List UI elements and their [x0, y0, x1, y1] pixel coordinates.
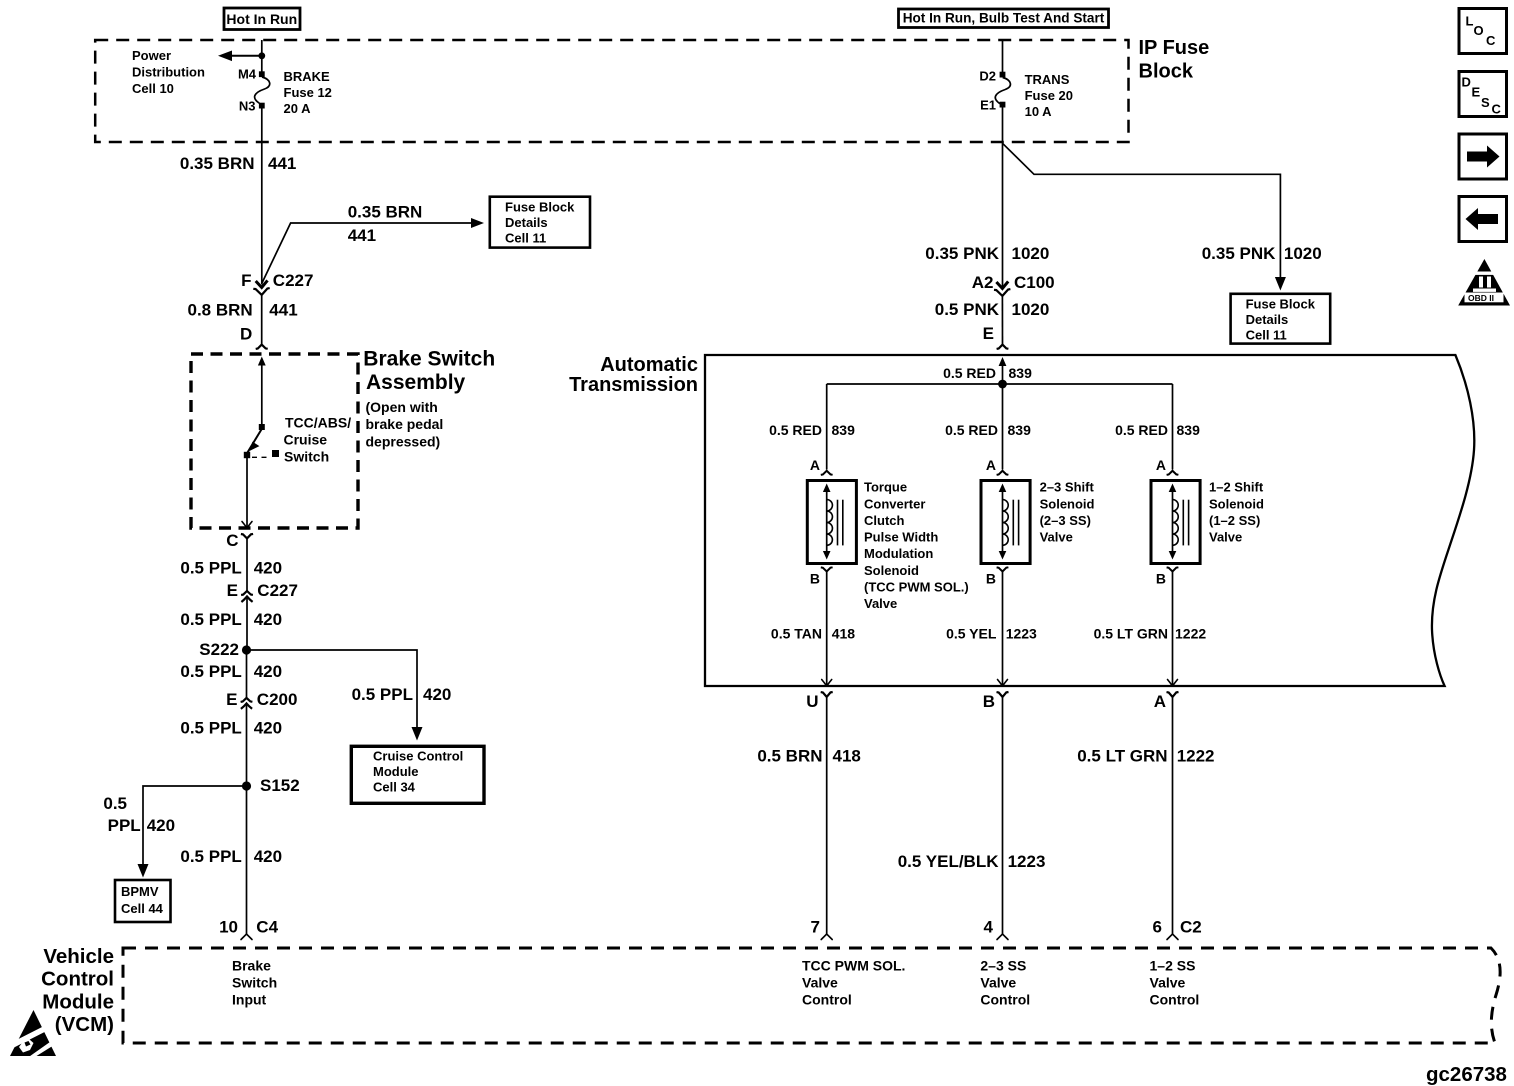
svg-text:0.5 PPL: 0.5 PPL — [180, 847, 241, 866]
connector C200 E (chevron + arrow up) — [241, 698, 253, 709]
wire E into transmission (arrow up) — [999, 357, 1007, 384]
svg-text:0.35 PNK: 0.35 PNK — [925, 244, 999, 263]
svg-text:0.8 BRN: 0.8 BRN — [188, 301, 253, 320]
svg-text:Hot In Run, Bulb Test And Star: Hot In Run, Bulb Test And Start — [903, 11, 1105, 26]
terminal B chevron — [997, 692, 1009, 697]
wire C to connector C227-E — [246, 538, 248, 591]
svg-text:C227: C227 — [257, 581, 298, 600]
svg-text:0.5 RED: 0.5 RED — [1115, 422, 1168, 438]
wire S222 to C200-E — [246, 650, 248, 698]
wire branch S222 to cruise control module — [247, 650, 423, 741]
terminal 6 C2 wire-end — [1167, 934, 1178, 940]
svg-text:brake pedal: brake pedal — [366, 416, 444, 432]
wire drop to 2-3 solenoid — [1002, 384, 1004, 470]
svg-text:420: 420 — [423, 685, 451, 704]
svg-text:0.35 BRN: 0.35 BRN — [180, 154, 255, 173]
svg-text:Module: Module — [373, 764, 419, 779]
fuse BRAKE Fuse 12 element — [255, 77, 270, 103]
svg-text:0.5 LT GRN: 0.5 LT GRN — [1077, 747, 1167, 766]
switch blade with arrow — [247, 430, 261, 453]
svg-text:C227: C227 — [273, 271, 314, 290]
svg-text:S152: S152 — [260, 776, 300, 795]
svg-text:Control: Control — [802, 991, 852, 1007]
svg-text:0.5 PNK: 0.5 PNK — [935, 300, 1000, 319]
ESD warning symbol — [10, 1010, 57, 1059]
svg-text:Cell 11: Cell 11 — [1246, 328, 1287, 343]
svg-text:A2: A2 — [972, 273, 994, 292]
svg-text:2–3 Shift: 2–3 Shift — [1040, 480, 1095, 495]
svg-text:C100: C100 — [1014, 273, 1055, 292]
svg-text:6: 6 — [1153, 918, 1162, 937]
svg-text:BPMV: BPMV — [121, 884, 159, 899]
svg-text:839: 839 — [832, 422, 856, 438]
svg-text:1020: 1020 — [1012, 300, 1050, 319]
svg-text:Valve: Valve — [1150, 975, 1186, 991]
svg-text:E1: E1 — [980, 98, 996, 113]
svg-text:C200: C200 — [257, 690, 298, 709]
box Fuse Block Details Cell 11 (right) — [1231, 294, 1331, 344]
solenoid 1-2 shift box — [1151, 481, 1200, 564]
svg-text:0.5 RED: 0.5 RED — [943, 365, 996, 381]
svg-text:0.5: 0.5 — [103, 794, 127, 813]
svg-text:418: 418 — [832, 626, 856, 642]
svg-text:B: B — [810, 571, 820, 587]
wire A to VCM pin 6 — [1172, 698, 1174, 935]
svg-text:L: L — [1466, 14, 1474, 29]
svg-text:Assembly: Assembly — [366, 371, 466, 394]
icon DESC box — [1459, 72, 1507, 117]
svg-text:Switch: Switch — [284, 449, 329, 465]
terminal A chevron — [1167, 692, 1179, 697]
svg-text:C: C — [1486, 33, 1496, 48]
svg-text:1–2 Shift: 1–2 Shift — [1209, 480, 1264, 495]
svg-text:441: 441 — [348, 226, 376, 245]
svg-text:Details: Details — [505, 215, 548, 230]
svg-text:1–2 SS: 1–2 SS — [1150, 958, 1196, 974]
fuse TRANS Fuse 20 element — [995, 78, 1010, 104]
wire from IP box top to fuse D2 (right) — [1002, 40, 1004, 72]
connector C100 A2 (arrow + chevron) — [994, 281, 1010, 296]
svg-text:E: E — [226, 690, 237, 709]
svg-text:Valve: Valve — [864, 596, 897, 611]
terminal 4 wire-end — [997, 934, 1008, 940]
svg-text:Switch: Switch — [232, 975, 277, 991]
connector C227 F (arrow + chevron) — [253, 280, 269, 295]
wire branch S152 to BPMV — [138, 786, 247, 878]
svg-text:Fuse 12: Fuse 12 — [284, 85, 332, 100]
pin A chevron (1-2) — [1167, 471, 1179, 475]
svg-text:A: A — [810, 457, 820, 473]
svg-text:0.5 LT GRN: 0.5 LT GRN — [1094, 626, 1168, 642]
svg-text:N3: N3 — [239, 99, 256, 114]
wire S152 to VCM pin 10 — [246, 786, 248, 934]
svg-text:B: B — [986, 571, 996, 587]
svg-text:TRANS: TRANS — [1025, 72, 1070, 87]
wire drop to TCC solenoid — [826, 384, 828, 470]
svg-text:10 A: 10 A — [1025, 104, 1053, 119]
svg-text:420: 420 — [254, 662, 282, 681]
pin A chevron (TCC) — [821, 471, 833, 475]
svg-text:C2: C2 — [1180, 918, 1202, 937]
svg-text:PPL: PPL — [108, 816, 141, 835]
svg-text:(TCC PWM SOL.): (TCC PWM SOL.) — [864, 580, 969, 595]
svg-text:S: S — [1481, 95, 1490, 110]
svg-text:Fuse Block: Fuse Block — [505, 200, 575, 215]
svg-text:IP Fuse: IP Fuse — [1139, 37, 1210, 59]
svg-text:0.5 YEL/BLK: 0.5 YEL/BLK — [898, 852, 999, 871]
svg-text:1222: 1222 — [1177, 747, 1215, 766]
svg-text:0.5 PPL: 0.5 PPL — [180, 719, 241, 738]
svg-text:839: 839 — [1008, 422, 1032, 438]
svg-text:TCC/ABS/: TCC/ABS/ — [285, 415, 351, 431]
svg-text:Details: Details — [1246, 312, 1289, 327]
pin B connector (TCC) — [821, 567, 833, 577]
wire into brake switch (arrow up) — [258, 357, 266, 425]
svg-text:839: 839 — [1009, 365, 1033, 381]
wire from IP box top to fuse M4 — [261, 40, 263, 72]
wire C227 to brake switch box — [261, 295, 263, 344]
svg-text:0.5 PPL: 0.5 PPL — [352, 685, 413, 704]
svg-text:Cruise Control: Cruise Control — [373, 749, 463, 764]
switch TCC/ABS/Cruise contact top — [259, 424, 265, 430]
svg-text:M4: M4 — [238, 67, 257, 82]
svg-text:Clutch: Clutch — [864, 513, 905, 528]
icon OBD II triangle — [1458, 259, 1510, 306]
solenoid TCC PWM box — [807, 481, 856, 564]
svg-text:0.5 YEL: 0.5 YEL — [946, 626, 997, 642]
svg-text:2–3 SS: 2–3 SS — [980, 958, 1026, 974]
node junction red feed — [998, 380, 1007, 389]
svg-text:(2–3 SS): (2–3 SS) — [1040, 513, 1091, 528]
node splice S152 — [242, 781, 251, 790]
svg-text:OBD II: OBD II — [1468, 293, 1494, 303]
svg-text:7: 7 — [811, 918, 820, 937]
node splice S222 — [242, 645, 251, 654]
wire fuse E1 down to connector C100-A2 — [1002, 108, 1004, 288]
wire branch to fuse block details (right) — [1003, 143, 1286, 290]
svg-text:Modulation: Modulation — [864, 546, 933, 561]
fuse TRANS Fuse 20 terminal D2 — [1000, 72, 1006, 78]
svg-text:(1–2 SS): (1–2 SS) — [1209, 513, 1260, 528]
svg-text:E: E — [983, 324, 994, 343]
svg-text:D2: D2 — [979, 69, 996, 84]
svg-text:1223: 1223 — [1008, 852, 1046, 871]
svg-text:B: B — [983, 692, 995, 711]
svg-text:TCC PWM SOL.: TCC PWM SOL. — [802, 958, 905, 974]
svg-text:Cell 34: Cell 34 — [373, 780, 416, 795]
svg-text:(Open with: (Open with — [366, 399, 438, 415]
Automatic Transmission box with torn right edge — [705, 355, 1474, 686]
svg-text:10: 10 — [219, 918, 238, 937]
svg-text:20 A: 20 A — [284, 101, 312, 116]
svg-text:Valve: Valve — [1209, 530, 1242, 545]
svg-text:0.5 RED: 0.5 RED — [945, 422, 998, 438]
svg-text:C4: C4 — [256, 918, 278, 937]
svg-text:A: A — [1154, 692, 1166, 711]
svg-text:O: O — [1474, 23, 1484, 38]
svg-text:420: 420 — [147, 816, 175, 835]
header box Hot In Run — [224, 8, 300, 30]
svg-text:Distribution: Distribution — [132, 65, 205, 80]
connector C227 E (chevron + arrow up) — [241, 591, 253, 602]
svg-text:1222: 1222 — [1175, 626, 1206, 642]
svg-text:BRAKE: BRAKE — [284, 69, 331, 84]
svg-text:0.5 TAN: 0.5 TAN — [771, 626, 822, 642]
svg-text:Hot In Run: Hot In Run — [226, 11, 297, 27]
svg-text:E: E — [1472, 85, 1481, 100]
icon LOC box — [1459, 9, 1507, 54]
svg-text:Brake: Brake — [232, 958, 271, 974]
svg-text:0.35 PNK: 0.35 PNK — [1202, 244, 1276, 263]
svg-text:Block: Block — [1139, 61, 1194, 83]
svg-text:Fuse 20: Fuse 20 — [1025, 88, 1073, 103]
terminal D chevron — [256, 345, 268, 349]
svg-text:Brake Switch: Brake Switch — [363, 348, 495, 371]
svg-text:Transmission: Transmission — [569, 374, 698, 396]
svg-text:441: 441 — [268, 154, 296, 173]
wire drop to 1-2 solenoid — [1172, 384, 1174, 470]
wire U to VCM pin 7 — [826, 698, 828, 935]
wire 1-2 B to transmission bottom — [1168, 577, 1178, 686]
svg-text:Module: Module — [42, 990, 114, 1013]
wire branch to fuse block details (left) — [262, 218, 484, 283]
svg-text:B: B — [1156, 571, 1166, 587]
svg-text:D: D — [240, 325, 252, 344]
svg-text:Cell 10: Cell 10 — [132, 81, 174, 96]
svg-text:Valve: Valve — [980, 975, 1016, 991]
terminal U chevron — [821, 692, 833, 697]
svg-text:0.5 PPL: 0.5 PPL — [180, 610, 241, 629]
svg-text:Cell 44: Cell 44 — [121, 901, 164, 916]
svg-text:C: C — [226, 531, 238, 550]
header box Hot In Run, Bulb Test And Start — [899, 9, 1109, 28]
svg-text:1020: 1020 — [1012, 244, 1050, 263]
svg-text:0.5 RED: 0.5 RED — [769, 422, 822, 438]
svg-text:Automatic: Automatic — [600, 354, 698, 376]
svg-text:Vehicle: Vehicle — [43, 945, 114, 968]
switch lower contact — [244, 452, 250, 458]
node junction at fuse feed — [258, 52, 265, 59]
switch right contact — [272, 450, 279, 457]
fuse BRAKE Fuse 12 terminal N3 — [259, 103, 265, 109]
svg-text:420: 420 — [254, 847, 282, 866]
wire to power distribution with left arrow — [218, 51, 262, 62]
wire C100 to transmission — [1001, 296, 1003, 344]
svg-text:Input: Input — [232, 991, 267, 1007]
svg-text:U: U — [806, 692, 818, 711]
svg-text:418: 418 — [833, 747, 861, 766]
terminal 10 C4 wire-end — [241, 934, 252, 940]
wire C200 to S152 — [246, 703, 248, 786]
Brake Switch Assembly dashed box — [191, 354, 358, 528]
svg-text:1223: 1223 — [1006, 626, 1037, 642]
svg-text:420: 420 — [254, 610, 282, 629]
svg-text:E: E — [227, 581, 238, 600]
Vehicle Control Module dashed box with torn right edge — [123, 948, 1500, 1043]
wire 2-3 B to transmission bottom — [998, 577, 1008, 686]
svg-text:Cruise: Cruise — [284, 432, 328, 448]
wire switch to box bottom with barb arrow — [242, 458, 252, 528]
terminal E chevron (transmission) — [997, 345, 1009, 349]
svg-text:depressed): depressed) — [366, 433, 441, 449]
svg-text:Valve: Valve — [1040, 530, 1073, 545]
svg-text:Fuse Block: Fuse Block — [1246, 297, 1316, 312]
wire fuse N3 down to connector C227-F — [261, 109, 263, 285]
svg-text:Control: Control — [1150, 991, 1200, 1007]
icon forward arrow box — [1459, 134, 1507, 179]
svg-text:839: 839 — [1177, 422, 1201, 438]
switch linkage dashed — [252, 456, 271, 458]
svg-text:(VCM): (VCM) — [55, 1013, 114, 1036]
svg-text:Cell 11: Cell 11 — [505, 231, 546, 246]
svg-text:420: 420 — [254, 719, 282, 738]
svg-text:Solenoid: Solenoid — [864, 563, 919, 578]
wire TCC B to transmission bottom — [822, 577, 832, 686]
solenoid 2-3 shift box — [981, 481, 1030, 564]
svg-text:Converter: Converter — [864, 496, 925, 511]
svg-text:441: 441 — [269, 301, 297, 320]
pin B connector (2-3) — [997, 567, 1009, 577]
svg-text:Power: Power — [132, 48, 171, 63]
svg-text:A: A — [1156, 457, 1166, 473]
svg-text:D: D — [1462, 75, 1471, 90]
terminal C chevron below box — [241, 534, 253, 539]
pin B connector (1-2) — [1167, 567, 1179, 577]
svg-text:Pulse Width: Pulse Width — [864, 530, 938, 545]
svg-text:gc26738: gc26738 — [1426, 1063, 1507, 1086]
svg-text:Solenoid: Solenoid — [1209, 496, 1264, 511]
svg-text:F: F — [241, 271, 251, 290]
svg-text:Valve: Valve — [802, 975, 838, 991]
svg-text:1020: 1020 — [1284, 244, 1322, 263]
svg-text:0.35 BRN: 0.35 BRN — [348, 203, 423, 222]
IP Fuse Block dashed box — [95, 40, 1128, 142]
svg-text:S222: S222 — [199, 640, 239, 659]
svg-text:Torque: Torque — [864, 480, 907, 495]
svg-text:0.5 PPL: 0.5 PPL — [180, 662, 241, 681]
svg-text:4: 4 — [984, 918, 994, 937]
svg-text:0.5 BRN: 0.5 BRN — [757, 747, 822, 766]
icon back arrow box — [1459, 197, 1507, 242]
svg-text:C: C — [1492, 102, 1502, 117]
pin A chevron (2-3) — [997, 471, 1009, 475]
wire C227-E to S222 — [246, 597, 248, 651]
fuse BRAKE Fuse 12 terminal M4 — [259, 71, 265, 77]
wire B to VCM pin 4 — [1002, 698, 1004, 935]
svg-text:A: A — [986, 457, 996, 473]
box BPMV Cell 44 — [115, 880, 171, 922]
svg-text:Control: Control — [980, 991, 1030, 1007]
terminal 7 wire-end — [821, 934, 832, 940]
box Fuse Block Details Cell 11 (left) — [490, 197, 590, 248]
svg-text:Control: Control — [41, 968, 114, 991]
svg-text:Solenoid: Solenoid — [1040, 496, 1095, 511]
fuse TRANS Fuse 20 terminal E1 — [1000, 102, 1006, 108]
box Cruise Control Module Cell 34 — [351, 746, 484, 803]
wire red feed bus — [827, 383, 1173, 385]
svg-text:420: 420 — [254, 559, 282, 578]
svg-text:0.5 PPL: 0.5 PPL — [180, 559, 241, 578]
